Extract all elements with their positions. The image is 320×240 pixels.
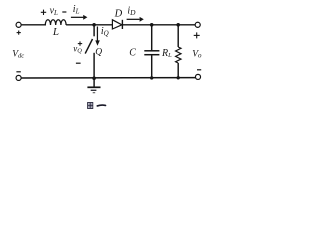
svg-text:RL: RL — [161, 48, 172, 59]
node junction resistor/top — [176, 23, 180, 27]
terminal output + (top-right) — [195, 22, 200, 27]
capacitor C — [144, 25, 159, 78]
switch Q blade — [85, 39, 92, 54]
label - (input) — [16, 71, 20, 73]
inductor L — [45, 20, 66, 25]
ground — [87, 78, 100, 93]
wire bottom rail — [21, 77, 196, 79]
wire switch upper lead — [93, 25, 95, 37]
label + vQ - — [78, 41, 82, 45]
node junction ground — [92, 76, 96, 80]
caption dash (one) — [97, 104, 105, 107]
svg-text:iQ: iQ — [101, 26, 109, 37]
svg-text:L: L — [52, 26, 59, 38]
label + (input) — [17, 31, 21, 35]
node junction capacitor/top — [150, 23, 154, 27]
wire top rail: inductor to diode — [66, 24, 112, 26]
svg-text:iD: iD — [127, 5, 136, 16]
svg-text:Q: Q — [95, 47, 102, 57]
terminal output - (bottom-right) — [195, 74, 200, 79]
wire top rail: source to inductor — [21, 24, 46, 26]
svg-text:D: D — [114, 8, 123, 19]
svg-text:vQ: vQ — [73, 43, 82, 54]
node junction resistor/bottom — [177, 76, 180, 79]
terminal input + (top-left) — [16, 22, 21, 27]
label + vL - — [41, 10, 46, 15]
svg-text:Vdc: Vdc — [12, 49, 24, 59]
wire switch lower lead — [93, 53, 95, 78]
label iQ with arrow — [95, 27, 100, 46]
terminal input - (bottom-left) — [16, 75, 21, 80]
diode D — [112, 20, 122, 29]
svg-text:C: C — [129, 48, 136, 59]
resistor RL — [176, 25, 181, 78]
node junction switch/top — [92, 23, 96, 27]
svg-text:iL: iL — [73, 4, 80, 15]
svg-text:Vo: Vo — [192, 49, 202, 59]
label + (output) — [194, 32, 200, 38]
svg-text:vL: vL — [50, 6, 58, 17]
wire top rail: diode to output — [122, 24, 195, 26]
node junction capacitor/bottom — [150, 76, 153, 79]
label - (output) — [197, 69, 201, 71]
caption figure-one glyph — [88, 103, 93, 109]
